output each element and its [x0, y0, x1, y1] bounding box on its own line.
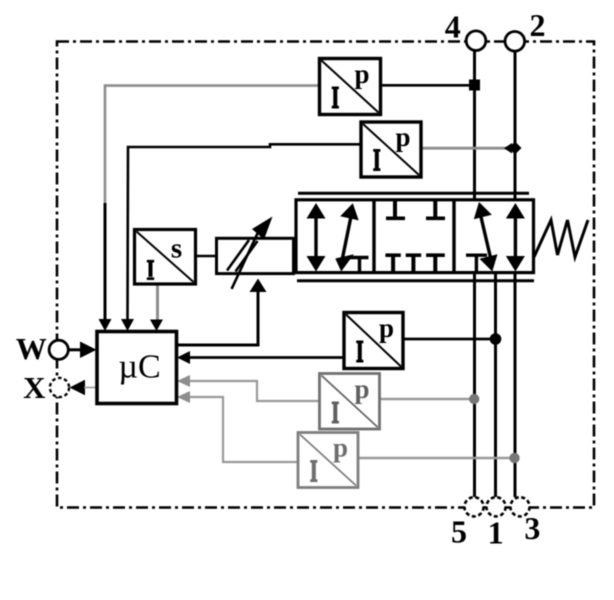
svg-text:p: p — [354, 374, 369, 404]
svg-text:4: 4 — [445, 9, 461, 45]
svg-text:2: 2 — [530, 7, 546, 43]
svg-text:p: p — [354, 59, 369, 89]
svg-text:1: 1 — [488, 515, 504, 551]
svg-text:p: p — [333, 433, 348, 463]
svg-text:W: W — [16, 331, 47, 366]
svg-text:µC: µC — [118, 349, 160, 386]
svg-text:s: s — [171, 233, 182, 265]
svg-text:p: p — [379, 313, 394, 343]
svg-text:5: 5 — [451, 514, 467, 550]
svg-text:p: p — [395, 122, 410, 152]
svg-text:X: X — [23, 370, 46, 405]
svg-text:3: 3 — [524, 510, 540, 546]
